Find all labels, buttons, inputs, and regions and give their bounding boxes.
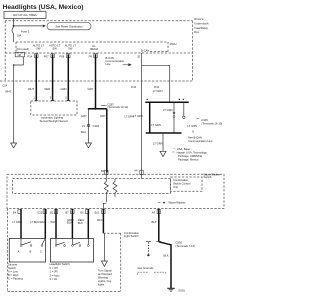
svg-text:C304: C304	[93, 124, 100, 128]
wire strip to B12	[103, 203, 106, 209]
svg-text:C305: C305	[201, 118, 208, 122]
stub arrow variant link (LT GRN)	[163, 102, 175, 133]
svg-text:Dimmer: Dimmer	[8, 263, 18, 267]
svg-text:LT GRN: LT GRN	[12, 220, 22, 224]
svg-text:BEAM: BEAM	[90, 47, 98, 51]
svg-text:A4: A4	[134, 169, 138, 173]
svg-text:B1: B1	[50, 210, 54, 214]
svg-text:Headlights (USA, Mexico): Headlights (USA, Mexico)	[3, 4, 84, 11]
junction bar B-CAN 1	[145, 101, 188, 103]
svg-text:LT BLU/WHT: LT BLU/WHT	[30, 220, 46, 224]
svg-text:H6: H6	[18, 53, 22, 57]
connector D41	[154, 85, 159, 89]
svg-text:Switch: Switch	[204, 175, 212, 179]
svg-text:BLK: BLK	[164, 253, 169, 257]
svg-text:LT GRN: LT GRN	[153, 142, 163, 146]
label Turn Signal and Hazard Warning Lights, Fog Lights	[98, 269, 112, 287]
svg-text:* : USA, Base: * : USA, Base	[174, 147, 191, 151]
wire P08 to sensor (GRN)	[61, 54, 69, 101]
terminal B1 (top)	[101, 169, 108, 175]
terminal A9 (bottom)	[152, 210, 161, 215]
svg-text:3 = HL: 3 = HL	[50, 277, 58, 281]
svg-text:Sensor/Sunlight Sensor: Sensor/Sunlight Sensor	[40, 119, 68, 123]
combination switch body dashed box	[7, 174, 224, 208]
svg-text:and Hazard: and Hazard	[98, 272, 112, 276]
svg-text:GRY: GRY	[81, 114, 87, 118]
wire bar2 to arrow (LT GRN)	[151, 123, 163, 152]
hot-at-all-times label box	[4, 11, 46, 18]
wire B12 to light switch link (BLK)	[97, 209, 103, 233]
control unit labelled dashed box	[171, 177, 203, 191]
connector arrow off-page (H6 wire)	[11, 143, 17, 148]
MICU sub-box	[150, 42, 177, 52]
svg-text:See Power Distribution: See Power Distribution	[55, 25, 83, 29]
fuse F3 (Fuse 3 10A)	[12, 27, 30, 42]
svg-text:BLK: BLK	[67, 221, 72, 225]
label dimmer switch legend	[8, 263, 23, 281]
connector arrow off-page (turn signal)	[101, 261, 107, 266]
svg-text:C530: C530	[176, 240, 183, 244]
svg-text:10A: 10A	[17, 33, 22, 37]
wire A4 into control unit	[141, 174, 143, 178]
svg-text:BLK: BLK	[97, 218, 102, 222]
svg-text:GRY: GRY	[100, 114, 106, 118]
wire P14 to sensor (WHT)	[28, 54, 36, 101]
connector D41 (left wire)	[131, 85, 136, 89]
terminal B1 (bottom)	[50, 210, 58, 215]
svg-text:Package, CMBS/NA: Package, CMBS/NA	[178, 154, 202, 158]
svg-text:Box: Box	[194, 30, 199, 34]
footnote dots **	[179, 99, 184, 100]
terminal B7 (bottom)	[65, 210, 74, 215]
note wiper/washer link	[158, 201, 186, 205]
svg-text:See Grounds: See Grounds	[138, 266, 154, 270]
svg-text:Fuse 3: Fuse 3	[21, 29, 30, 33]
wire B7 to headlight switch (GRN/BLK)	[67, 209, 74, 239]
svg-text:LT GRN: LT GRN	[153, 89, 163, 93]
label C587 (Terminals 10-12)	[101, 103, 129, 110]
junction bar B-CAN 2	[146, 132, 182, 134]
svg-text:Communication Line: Communication Line	[188, 139, 213, 143]
see power distribution reference arrow	[14, 23, 92, 30]
wire to turn signal circuits	[103, 233, 105, 261]
svg-text:SW: SW	[68, 47, 73, 51]
terminal 20 B-CAN	[137, 48, 149, 58]
svg-text:WHT: WHT	[28, 87, 34, 91]
svg-text:G501: G501	[178, 288, 185, 292]
svg-text:(Terminals 10-12): (Terminals 10-12)	[107, 105, 128, 109]
svg-text:B12: B12	[95, 210, 100, 214]
wire P9 to junction (GRY)	[88, 54, 96, 109]
terminal H6 (not used)	[15, 47, 29, 57]
svg-text:B-CAN: B-CAN	[141, 48, 149, 52]
title Headlights (USA, Mexico)	[3, 4, 84, 11]
dimmer switch S1 box	[9, 239, 45, 263]
svg-text:Wiper/Washer: Wiper/Washer	[169, 201, 186, 205]
svg-text:Lights, Fog: Lights, Fog	[98, 279, 112, 283]
terminal E10 (bottom)	[38, 210, 47, 215]
svg-text:P07: P07	[44, 54, 49, 58]
terminal E6 (bottom)	[80, 210, 89, 215]
svg-text:Turn Signal: Turn Signal	[98, 269, 112, 273]
label AUTO LT SW (P14)	[33, 44, 44, 51]
connector C530 tick	[176, 240, 196, 248]
pass-through dashed line	[0, 80, 193, 82]
footnote list	[172, 147, 207, 161]
label AUTO LT SW (P08)	[65, 44, 76, 51]
svg-text:B = High: B = High	[8, 273, 19, 277]
svg-text:WHT: WHT	[50, 220, 56, 224]
label See B-CAN Communication Line	[188, 130, 213, 143]
resistor contact R2	[113, 179, 117, 197]
wire bar1 to bar2 (LT GRN)	[133, 102, 150, 133]
terminal P14	[28, 54, 39, 59]
sensor module Automatic Lighting Sensor/Sunlight Sensor	[31, 100, 77, 123]
svg-text:Under-dash: Under-dash	[194, 22, 209, 26]
svg-text:C = Passing: C = Passing	[8, 277, 23, 281]
terminal P08	[60, 54, 71, 59]
wire from hot feed	[13, 19, 15, 28]
label C305 (Terminals 16-10)	[197, 118, 223, 126]
svg-text:lights: lights	[98, 283, 105, 287]
label AUTO LT SW (P07)	[49, 44, 60, 51]
svg-text:A = Low: A = Low	[8, 270, 18, 274]
svg-text:P08: P08	[60, 54, 65, 58]
connector C14	[2, 84, 7, 88]
svg-text:1: 1	[33, 96, 35, 100]
connector arrow off-page (sensor branch)	[86, 143, 92, 148]
svg-text:** : Hawaii, USA, Technology: ** : Hawaii, USA, Technology	[172, 151, 207, 155]
svg-text:B: B	[30, 250, 32, 254]
svg-text:21: 21	[82, 124, 85, 128]
svg-text:Unit: Unit	[173, 185, 178, 189]
svg-text:Fuse/Relay: Fuse/Relay	[194, 26, 208, 30]
svg-text:GRY: GRY	[88, 87, 94, 91]
svg-text:P14: P14	[28, 54, 33, 58]
terminal A4 (top)	[134, 169, 143, 175]
svg-text:3: 3	[50, 96, 52, 100]
wire B4 to dimmer switch (LT GRN)	[12, 209, 22, 239]
svg-text:(Terminals 7-13): (Terminals 7-13)	[176, 244, 196, 248]
svg-text:A: A	[18, 250, 20, 254]
wire B1 to headlight switch (WHT)	[50, 209, 56, 239]
label B-CAN Communication Line w/ arrow	[106, 56, 132, 66]
svg-text:D41: D41	[131, 85, 136, 89]
svg-text:(Terminals 16-10): (Terminals 16-10)	[201, 121, 222, 125]
wire H6 to arrow (WHT)	[5, 57, 23, 143]
combination light switch linkage	[103, 231, 139, 292]
svg-text:A9: A9	[152, 210, 156, 214]
wire A9 to ground net (BLK)	[152, 209, 159, 242]
svg-text:B7: B7	[65, 210, 69, 214]
wire junction to connector 21 C584 (GRY/BLU)	[81, 109, 99, 143]
svg-text:0 = Off: 0 = Off	[50, 266, 58, 270]
label Driver's Under-dash Fuse/Relay Box	[194, 17, 209, 34]
svg-text:E10: E10	[38, 210, 43, 214]
svg-text:LT GRN: LT GRN	[151, 123, 161, 127]
svg-text:P9: P9	[89, 54, 93, 58]
terminal P9	[89, 54, 98, 59]
svg-text:Light Switch: Light Switch	[124, 234, 139, 238]
svg-text:C14: C14	[2, 84, 7, 88]
svg-text:BLK: BLK	[78, 221, 83, 225]
svg-text:See B-CAN: See B-CAN	[188, 135, 202, 139]
node power junction	[13, 25, 15, 27]
svg-text:BLK: BLK	[152, 220, 157, 224]
svg-text:Combination: Combination	[124, 231, 140, 235]
svg-text:SW: SW	[36, 47, 41, 51]
svg-text:5: 5	[65, 96, 67, 100]
junction bar C587	[88, 108, 107, 110]
terminal B4 (bottom)	[13, 210, 21, 215]
control unit dashed sub-box	[13, 179, 171, 194]
svg-text:E6: E6	[80, 210, 84, 214]
label Wiper/Washer Switch	[204, 172, 221, 179]
terminal B12 (bottom)	[95, 210, 106, 215]
headlight switch S2 box	[51, 239, 94, 263]
svg-text:C: C	[40, 250, 42, 254]
svg-text:2 = Auto: 2 = Auto	[50, 273, 60, 277]
resistor contact R1	[104, 182, 108, 203]
fuse box U1 Driver's Under-dash Fuse/Relay Box outline	[5, 21, 193, 81]
svg-text:LT GRN: LT GRN	[133, 114, 143, 118]
svg-text:Switch: Switch	[8, 266, 16, 270]
svg-text:(Not used): (Not used)	[17, 47, 30, 51]
svg-text:LT GRN: LT GRN	[188, 124, 198, 128]
label headlight switch legend	[50, 262, 71, 281]
wire B-CAN 20 to A4 (LT GRN)	[124, 53, 141, 174]
svg-text:Driver's: Driver's	[194, 17, 204, 21]
terminal P07	[44, 54, 55, 59]
wire P07 to sensor (RED)	[45, 54, 53, 101]
svg-text:RED: RED	[45, 87, 51, 91]
fuse strip sub-box	[16, 42, 168, 53]
wire B1 strip	[105, 173, 107, 182]
connector arrow off-page (B-CAN)	[160, 151, 166, 156]
wire junction to combination switch B1 (GRY)	[100, 109, 107, 173]
svg-text:Headlight Switch: Headlight Switch	[50, 262, 71, 266]
footnote dot *	[147, 99, 148, 100]
svg-text:SW: SW	[52, 47, 57, 51]
svg-text:20: 20	[137, 55, 140, 59]
svg-text:Warning: Warning	[98, 276, 108, 280]
svg-text:B1: B1	[101, 169, 105, 173]
ground G501	[167, 288, 185, 292]
svg-text:1 = (P): 1 = (P)	[50, 270, 58, 274]
stub to C305 connector	[183, 102, 198, 128]
svg-text:GRN: GRN	[61, 87, 67, 91]
wire E6 to headlight switch (RED/BLK)	[78, 209, 89, 239]
wire E10 to dimmer switch (LT BLU/WHT)	[30, 209, 46, 239]
see grounds dotted branch	[138, 241, 166, 275]
svg-text:MICU: MICU	[170, 42, 177, 46]
combination light switch dashed enclosure	[8, 208, 121, 291]
svg-text:Line: Line	[106, 62, 112, 66]
svg-text:LT GRN: LT GRN	[163, 108, 173, 112]
svg-text:WHT: WHT	[5, 90, 11, 94]
svg-text:BLU: BLU	[81, 130, 86, 134]
svg-text:HOT AT ALL TIMES: HOT AT ALL TIMES	[13, 13, 37, 17]
wire branch 20 to bar1	[142, 65, 170, 102]
label HI BEAM (P9)	[90, 44, 98, 51]
svg-text:Package, Mexico: Package, Mexico	[178, 157, 199, 161]
wire to ground G501 (BLK)	[159, 242, 171, 288]
svg-text:D41: D41	[154, 85, 159, 89]
svg-text:B4: B4	[13, 210, 17, 214]
